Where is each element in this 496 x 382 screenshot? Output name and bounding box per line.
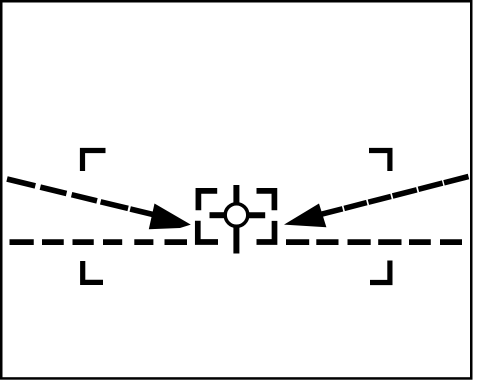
large focus frame corner bottom-left: [83, 261, 103, 282]
AF area bracket top-right: [257, 191, 275, 210]
AF target cross bottom stem: [233, 227, 239, 254]
AF target cross left arm: [210, 212, 225, 218]
AF target cross right arm: [249, 212, 265, 218]
AF area bracket bottom-left: [198, 221, 218, 242]
left arrowhead: [149, 204, 191, 230]
AF target cross top stem: [233, 185, 239, 203]
large focus frame corner bottom-right: [370, 261, 390, 283]
AF area bracket bottom-right: [257, 221, 275, 242]
large focus frame corner top-right: [369, 151, 390, 172]
large focus frame corner top-left: [83, 151, 106, 172]
right diagonal dashed arrow line: [320, 177, 469, 215]
right arrowhead: [284, 204, 326, 228]
dashed horizon line: [10, 239, 463, 245]
AF target circle: [225, 204, 248, 227]
AF area bracket top-left: [198, 191, 217, 210]
left diagonal dashed arrow line: [7, 179, 153, 215]
